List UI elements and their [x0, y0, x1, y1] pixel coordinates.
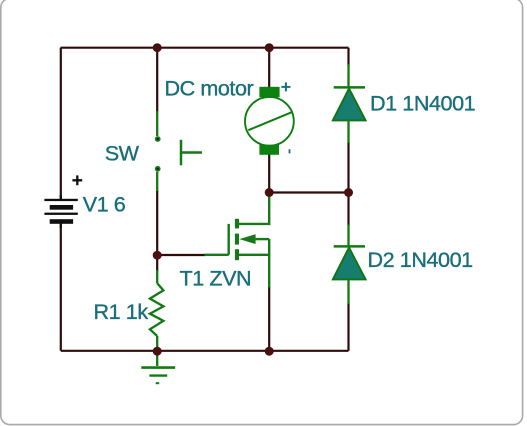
ground symbol: [141, 352, 175, 383]
transistor T1 body lead: [256, 238, 270, 240]
wire D2 bottom corner: [347, 303, 349, 351]
DC motor body: [245, 97, 294, 146]
svg-text:DC motor: DC motor: [165, 76, 254, 101]
wire D1 bottom: [347, 142, 349, 193]
node G junction dot: [265, 347, 274, 356]
node E junction dot: [344, 188, 353, 197]
wire left-bottom vertical (battery - lead): [60, 224, 62, 351]
svg-text:R1 1k: R1 1k: [94, 299, 149, 324]
diode D1 cathode bar: [334, 86, 365, 89]
wire D1 top corner: [347, 48, 349, 66]
transistor T1 source bar: [235, 249, 239, 260]
transistor T1 drain bar: [235, 219, 239, 229]
diode D1 lead bottom: [347, 120, 349, 143]
switch SW lead top: [156, 111, 158, 136]
wire motor bottom to node D: [268, 155, 270, 193]
wire SW top (node A down to switch): [156, 48, 158, 113]
switch SW actuator: [181, 140, 202, 166]
switch SW terminal top: [155, 136, 161, 142]
transistor T1 gate lead: [205, 254, 229, 256]
DC motor minus mark: [289, 149, 291, 153]
wire node D to node E horizontal: [269, 191, 348, 193]
transistor T1 source down lead: [268, 239, 270, 287]
transistor T1 drain lead: [239, 195, 269, 224]
transistor T1 gate line: [227, 224, 229, 255]
transistor T1 body arrow: [239, 234, 255, 244]
DC motor terminal bottom: [259, 145, 279, 155]
svg-text:T1 ZVN: T1 ZVN: [180, 266, 252, 291]
node C gate junction dot: [153, 251, 162, 260]
diode D1 triangle: [333, 89, 366, 121]
diode D1 lead top: [347, 64, 349, 88]
svg-text:D2 1N4001: D2 1N4001: [368, 247, 473, 272]
switch SW lead bottom: [156, 172, 158, 191]
resistor R1 lead top: [156, 270, 158, 283]
resistor R1 zigzag: [150, 283, 164, 336]
diode D2 cathode bar: [334, 245, 365, 248]
svg-text:D1 1N4001: D1 1N4001: [370, 91, 475, 116]
DC motor terminal top: [259, 87, 279, 97]
switch SW terminal bottom: [155, 166, 161, 172]
DC motor rotor slash: [248, 112, 291, 130]
wire R1 top (gate node down): [156, 255, 158, 271]
diode D2 lead bottom: [347, 279, 349, 304]
wire top horizontal (V+ net): [61, 47, 349, 49]
wire gate horizontal: [157, 254, 206, 256]
node D junction dot: [265, 188, 274, 197]
battery plus sign: [72, 175, 82, 185]
wire SW bottom (switch to gate node): [156, 190, 158, 255]
wire bottom horizontal (ground net): [61, 350, 349, 352]
node F ground junction dot: [153, 347, 162, 356]
wire MOSFET source down to ground net: [268, 287, 270, 352]
wire motor top: [268, 48, 270, 88]
resistor R1 lead bottom: [156, 336, 158, 350]
transistor T1 body bar: [235, 234, 239, 245]
svg-text:SW: SW: [105, 141, 140, 166]
node B junction dot: [265, 43, 274, 52]
diode D2 lead top: [347, 225, 349, 248]
battery V1: [44, 195, 77, 228]
transistor T1 source lead: [239, 254, 269, 256]
svg-text:V1 6: V1 6: [83, 191, 126, 216]
node A junction dot: [153, 43, 162, 52]
wire left vertical (battery + lead): [60, 48, 62, 199]
DC motor plus mark: [281, 82, 290, 91]
diode D2 triangle: [333, 248, 366, 280]
wire D2 top: [347, 193, 349, 227]
